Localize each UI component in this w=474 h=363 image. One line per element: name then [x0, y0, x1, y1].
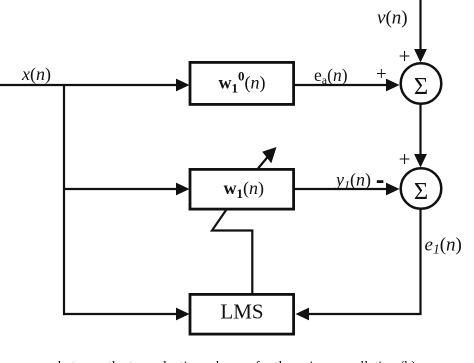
svg-text:(n): (n)	[243, 178, 264, 199]
svg-text:+: +	[399, 44, 411, 68]
svg-text:y1(n): y1(n)	[334, 170, 371, 192]
svg-text:between the two adaptive schem: between the two adaptive schemes for the…	[58, 360, 416, 363]
svg-text:Σ: Σ	[414, 178, 428, 205]
svg-text:v(n): v(n)	[377, 8, 408, 29]
svg-text:(n): (n)	[245, 73, 266, 94]
svg-text:Σ: Σ	[414, 73, 428, 100]
svg-text:e1(n): e1(n)	[425, 235, 462, 257]
svg-text:x(n): x(n)	[21, 64, 51, 85]
svg-text:ea(n): ea(n)	[314, 65, 348, 87]
svg-text:+: +	[399, 147, 411, 171]
svg-text:LMS: LMS	[220, 300, 263, 324]
svg-text:+: +	[376, 64, 387, 85]
